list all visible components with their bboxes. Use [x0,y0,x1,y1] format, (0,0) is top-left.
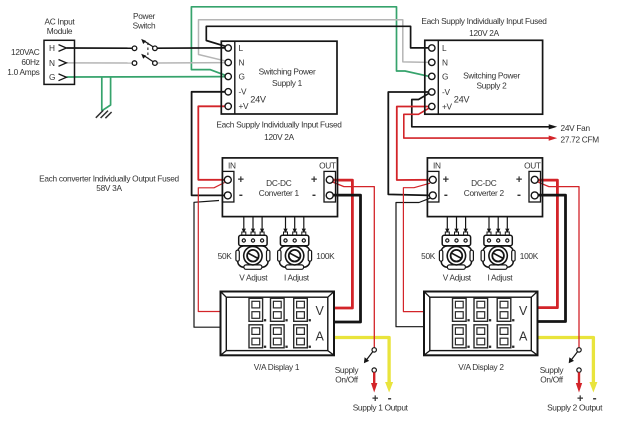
svg-text:N: N [442,57,448,67]
adjustment screw of R4 [489,247,507,265]
wire: Display1 A out to Supply1 output - (yellow) [333,338,389,384]
wire+arrow: Supply 1 output + (red) [373,372,375,383]
supply on/off switch S3 [577,348,581,352]
svg-text:-: - [239,187,243,201]
svg-text:OUT: OUT [524,161,541,171]
svg-text:+: + [311,174,317,186]
wire: Converter2 IN- to Display2 power - (thin black) [396,198,430,327]
pin wire of R4 [497,217,499,229]
wire: Converter1 IN- to Display1 power - (thin black) [194,201,222,328]
7-segment digits of DS1 [249,298,263,321]
svg-text:Each Supply Individually Input: Each Supply Individually Input Fused [216,120,342,130]
switching power supply PS2 [425,40,543,114]
wire: ground rail Supply1 G to Supply2 G (green, top rail) [191,7,428,77]
svg-text:120VAC: 120VAC [11,47,40,57]
wire: Supply2 +V to 27.72 CFM fan (red) [404,108,550,138]
svg-text:Each Supply Individually Input: Each Supply Individually Input Fused [421,16,547,26]
svg-text:Supply: Supply [335,365,360,375]
wire: power switch to Supply 1 N (gray) [157,62,225,64]
V/A panel meter DS1 [221,292,335,356]
svg-text:AC Input: AC Input [45,17,76,27]
arrow: 27.72 CFM fan feed [549,136,558,141]
svg-text:V Adjust: V Adjust [443,272,472,282]
svg-text:50K: 50K [218,251,233,261]
svg-text:DC-DC: DC-DC [266,178,292,188]
terminal N of PS2 [429,59,435,65]
wire: Converter2 IN+ to Display2 power + (thin red) [403,183,430,311]
terminal +V of PS1 [225,103,231,109]
svg-text:V/A Display 1: V/A Display 1 [254,362,300,372]
wire: Supply2 -V to 24V fan (black) [412,93,550,127]
chassis ground symbol [96,110,103,117]
pin wire of R4 [488,217,490,229]
svg-text:24V: 24V [250,94,267,104]
terminal L of PS1 [225,45,231,51]
svg-text:On/Off: On/Off [540,375,563,385]
wire: Converter1 OUT+ to on/off switch S2 (thin red) [333,182,375,348]
wire: AC neutral N to power switch (gray) [67,62,133,64]
svg-text:Switching Power: Switching Power [463,71,520,81]
pin wire of R2 [285,217,287,229]
arrow: Supply 2 output - (yellow) [589,382,597,393]
terminal IN+ of Converter 1 [224,176,231,183]
AC input module J1 [44,40,75,84]
pin wire of R3 [465,217,467,229]
terminal IN- of Converter 2 [429,192,436,199]
svg-text:On/Off: On/Off [335,375,358,385]
V/A panel meter DS2 [424,292,538,356]
svg-text:-: - [444,187,448,201]
svg-text:Supply 1 Output: Supply 1 Output [353,403,409,413]
adjustment screw of R1 [244,247,262,265]
adjustment screw of R2 [285,247,303,265]
terminal OUT+ of Converter 1 [326,176,333,183]
wire: Converter2 OUT+ to Display2 V input (thick red) [537,180,557,308]
svg-text:24V: 24V [454,94,471,104]
pin wire of R2 [303,217,305,229]
wire: ground drop 2 (green) [102,77,111,111]
svg-text:100K: 100K [520,251,539,261]
svg-text:-V: -V [239,87,247,97]
wire: AC hot H to power switch (black) [67,47,133,49]
adjustment screw of R3 [447,247,465,265]
pin wire of R1 [261,217,263,229]
wire: Display2 A out to Supply2 output - (yellow) [537,338,593,384]
wire: ground drop 1 (green) [101,77,103,111]
blade of S3 [571,352,577,360]
svg-text:27.72 CFM: 27.72 CFM [561,134,600,144]
svg-text:V Adjust: V Adjust [239,272,268,282]
svg-text:24V Fan: 24V Fan [561,123,591,133]
svg-text:Switching Power: Switching Power [259,67,316,77]
svg-text:Supply 1: Supply 1 [272,78,303,88]
arrow: Supply 1 output - (yellow) [385,382,393,393]
wire: Converter1 IN+ to Display1 power + (thin red) [198,183,224,312]
terminal N of PS1 [225,59,231,65]
pin wire of R1 [252,217,254,229]
svg-text:Power: Power [133,11,156,21]
supply on/off switch S2 [372,348,376,352]
wire: neutral rail Supply1 N to Supply2 N (gray) [199,20,429,63]
svg-text:I Adjust: I Adjust [284,272,310,282]
svg-text:L: L [442,43,447,53]
switch S1 pole 2 blade [144,55,154,61]
svg-text:OUT: OUT [319,161,336,171]
switch S1 pole 2 contacts [132,61,137,66]
svg-text:Converter 1: Converter 1 [259,188,300,198]
blade of S2 [367,352,373,360]
svg-text:IN: IN [228,161,236,171]
svg-text:+: + [238,174,244,186]
terminal +V of PS2 [429,103,435,109]
svg-text:Each converter Individually Ou: Each converter Individually Output Fused [39,173,179,183]
terminal OUT- of Converter 1 [326,192,333,199]
svg-text:Supply 2: Supply 2 [477,80,508,90]
wire: Converter2 OUT+ to on/off switch S3 (thin red) [538,182,579,347]
svg-text:60Hz: 60Hz [21,57,39,67]
wire: Supply2 -V to Converter2 IN- (black) [388,92,429,195]
svg-text:DC-DC: DC-DC [471,178,497,188]
pin wire of R1 [243,217,245,229]
svg-text:V: V [519,304,528,318]
wire: Converter1 OUT+ to Display1 V input (thick red) [333,180,353,308]
IN terminal block of Converter 1 [222,171,234,202]
pin wire of R3 [446,217,448,229]
terminal L of PS2 [429,45,435,51]
svg-text:-: - [517,187,521,201]
svg-text:120V 2A: 120V 2A [469,28,499,38]
svg-text:Module: Module [47,26,73,36]
svg-text:Switch: Switch [133,20,156,30]
svg-text:G: G [442,71,448,81]
svg-text:Converter 2: Converter 2 [464,188,505,198]
terminal IN+ of Converter 2 [429,176,436,183]
wire: Supply2 +V to Converter2 IN+ (red) [397,107,430,181]
DC-DC converter Converter 2 [427,158,542,217]
svg-text:Supply: Supply [540,365,565,375]
wire: AC ground G to Supply 1 G terminal (green) [67,76,226,78]
OUT terminal block of Converter 1 [324,171,336,202]
svg-text:V: V [315,304,324,318]
wire: Supply1 -V to Converter1 IN- (black) [192,92,226,196]
wire: hot rail Supply1 L to Supply2 L (black) [206,26,428,48]
svg-text:G: G [239,71,245,81]
svg-text:G: G [49,72,55,82]
svg-text:+: + [443,174,449,186]
wire: Converter1 OUT- to Display1 A input (thick black) [333,195,361,322]
terminal G of PS2 [429,73,435,79]
switch S1 mechanical link (dashed) [147,43,149,59]
7-segment digits of DS2 [453,298,467,321]
svg-text:+V: +V [442,101,453,111]
terminal OUT- of Converter 2 [531,192,538,199]
terminal G of PS1 [225,73,231,79]
svg-text:L: L [239,43,244,53]
pin wire of R4 [506,217,508,229]
svg-text:+V: +V [239,101,250,111]
terminal OUT+ of Converter 2 [531,176,538,183]
switch S1 pole 1 blade [144,41,154,47]
svg-text:-V: -V [442,87,450,97]
terminal -V of PS1 [225,89,231,95]
svg-text:+: + [516,174,522,186]
svg-text:N: N [239,57,245,67]
terminal IN- of Converter 1 [224,192,231,199]
pin wire of R2 [294,217,296,229]
svg-text:IN: IN [433,161,441,171]
switch S1 pole 1 contacts [132,46,137,51]
svg-text:100K: 100K [316,251,335,261]
arrow: 24V fan feed [549,124,558,129]
DC-DC converter Converter 1 [222,158,337,217]
wire: Supply1 +V to Converter1 IN+ (red) [198,106,225,180]
svg-text:120V 2A: 120V 2A [264,132,294,142]
svg-text:A: A [519,330,528,344]
OUT terminal block of Converter 2 [529,171,541,202]
svg-text:V/A Display 2: V/A Display 2 [458,362,504,372]
wire: Converter2 OUT- to Display2 A input (thick black) [537,195,566,321]
svg-text:N: N [49,58,55,68]
svg-text:Supply 2 Output: Supply 2 Output [547,403,603,413]
terminal -V of PS2 [429,89,435,95]
svg-text:-: - [312,187,316,201]
switching power supply PS1 [221,41,337,114]
svg-text:I Adjust: I Adjust [487,272,513,282]
svg-text:H: H [49,43,55,53]
wire+arrow: Supply 2 output + (red) [578,372,580,383]
svg-text:58V 3A: 58V 3A [96,183,122,193]
svg-text:1.0 Amps: 1.0 Amps [7,67,39,77]
svg-text:A: A [315,330,324,344]
IN terminal block of Converter 2 [427,171,439,202]
wire: power switch to Supply 1 L (black) [157,47,225,49]
svg-text:50K: 50K [421,251,436,261]
pin wire of R3 [456,217,458,229]
